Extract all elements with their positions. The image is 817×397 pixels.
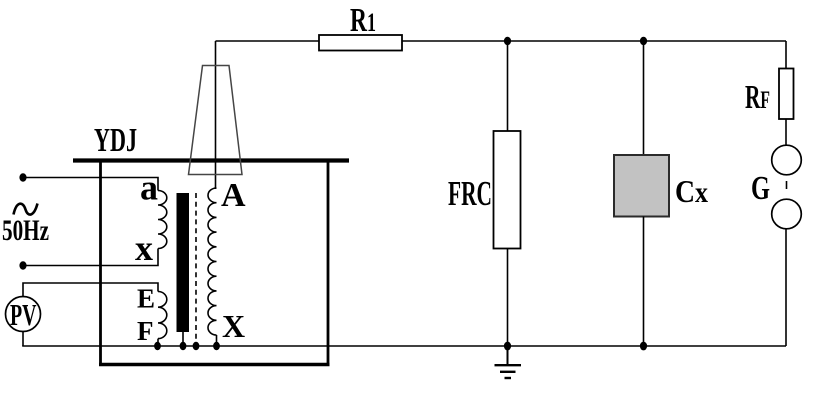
svg-text:50Hz: 50Hz <box>2 214 49 247</box>
bushing insulator <box>189 66 243 175</box>
svg-text:E: E <box>137 284 155 314</box>
transformer tank bottom wall <box>99 363 330 366</box>
voltmeter PV <box>6 297 41 333</box>
transformer tank right wall <box>327 160 330 366</box>
node junction top of Cx branch <box>640 37 647 45</box>
AC tilde symbol <box>14 204 38 215</box>
svg-text:F: F <box>137 316 154 346</box>
wire RF to gap <box>785 119 787 145</box>
winding a-x (primary) <box>158 191 167 249</box>
svg-text:R1: R1 <box>350 2 376 39</box>
resistor RF <box>745 69 794 120</box>
wire from top terminal to winding a <box>23 178 158 191</box>
wire PV bottom to rail <box>22 332 24 347</box>
wire from bottom terminal to winding x <box>23 249 158 266</box>
node shield on rail <box>193 342 200 350</box>
transformer YDJ top plate <box>73 158 349 162</box>
wire winding F to bottom rail <box>157 339 159 346</box>
shield (dashed) <box>195 193 197 346</box>
winding A-X (HV secondary) <box>208 188 217 335</box>
resistor R1 <box>319 2 402 51</box>
AC source terminal (bottom) <box>19 261 26 269</box>
wire winding X to bottom rail <box>216 335 218 346</box>
wire top rail right segment <box>402 40 786 42</box>
winding E-F (instrument) <box>158 292 167 339</box>
ground symbol <box>495 346 522 378</box>
wire gap to bottom rail <box>785 229 787 346</box>
divider FRC <box>448 131 521 249</box>
svg-text:PV: PV <box>10 297 37 332</box>
svg-text:A: A <box>221 177 246 214</box>
node FRC on rail <box>504 342 511 351</box>
svg-text:YDJ: YDJ <box>94 122 137 159</box>
gap G lower sphere <box>772 199 802 229</box>
svg-text:FRC: FRC <box>448 174 492 213</box>
wire FRC bottom <box>507 249 509 347</box>
transformer core bar <box>177 193 190 332</box>
gap stub <box>786 181 788 189</box>
node core on rail <box>180 342 187 350</box>
wire bottom ground rail <box>22 345 786 347</box>
wire HV lead from top rail to winding A <box>215 41 217 189</box>
node X on rail <box>213 342 220 350</box>
transformer tank left wall <box>99 160 102 366</box>
wire top rail left segment <box>216 40 320 42</box>
node F on rail <box>154 342 161 350</box>
capacitor/test object Cx <box>614 155 708 217</box>
AC source terminal (top) <box>19 173 26 181</box>
wire right branch top <box>785 41 787 69</box>
wire Cx bottom <box>643 217 645 347</box>
node junction top of FRC branch <box>504 37 511 45</box>
wire Cx top <box>643 41 645 155</box>
wire FRC top <box>507 41 509 131</box>
svg-text:Cx: Cx <box>675 173 708 209</box>
svg-text:a: a <box>140 168 158 208</box>
wire core to bottom rail <box>182 332 184 346</box>
node Cx on rail <box>640 342 647 351</box>
svg-text:G: G <box>751 170 770 207</box>
svg-text:X: X <box>222 308 245 344</box>
svg-text:x: x <box>135 228 153 268</box>
gap G upper sphere <box>772 145 802 175</box>
wire from PV to winding E <box>23 283 158 297</box>
